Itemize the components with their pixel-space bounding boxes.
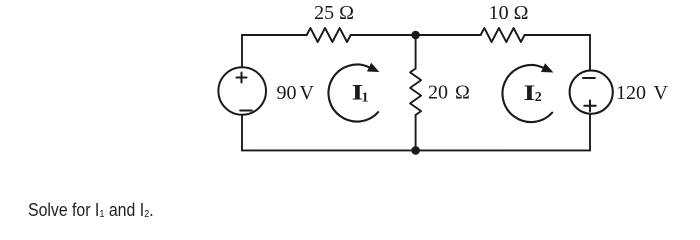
voltage source V2 plus sign xyxy=(584,100,595,111)
node B bottom junction dot xyxy=(411,146,420,155)
svg-text:V: V xyxy=(300,82,315,104)
label mesh current I2 xyxy=(524,80,542,105)
svg-text:V: V xyxy=(654,82,669,104)
voltage source V1 minus sign xyxy=(240,110,252,112)
voltage source V2 minus sign xyxy=(583,77,595,79)
node A top junction dot xyxy=(411,31,420,40)
svg-text:10 Ω: 10 Ω xyxy=(489,2,529,24)
label mesh current I1 xyxy=(352,79,369,105)
voltage source V1 90V circle xyxy=(218,67,266,115)
label R2 value 10 ohm xyxy=(489,2,529,24)
mesh current I1 loop arrow xyxy=(329,63,380,122)
wire right vertical lower xyxy=(589,114,591,151)
voltage source V1 plus sign xyxy=(237,73,247,83)
wire top middle xyxy=(351,34,481,36)
label V2 value 120 V xyxy=(616,82,669,104)
wire left vertical upper xyxy=(241,35,243,67)
wire left vertical lower xyxy=(241,115,243,150)
svg-text:20: 20 xyxy=(428,82,448,104)
svg-text:I: I xyxy=(524,80,536,105)
wire top-right horizontal xyxy=(525,34,590,36)
label V1 value 90 V xyxy=(277,82,315,104)
wire bottom xyxy=(242,149,590,151)
voltage source V2 120V circle xyxy=(570,71,613,114)
svg-text:120: 120 xyxy=(616,82,646,104)
caption: Solve for I1 and I2 xyxy=(28,200,154,221)
label R3 value 20 ohm xyxy=(428,82,470,104)
wire middle vertical upper xyxy=(415,35,417,69)
svg-text:90: 90 xyxy=(277,82,297,104)
svg-text:Ω: Ω xyxy=(455,82,470,104)
svg-text:1: 1 xyxy=(362,91,369,106)
label R1 value 25 ohm xyxy=(314,2,354,24)
resistor R3 20-ohm vertical zigzag xyxy=(410,69,421,116)
resistor R2 10-ohm zigzag xyxy=(481,28,525,42)
wire top-left horizontal xyxy=(242,34,307,36)
wire middle vertical lower xyxy=(415,115,417,150)
wire right vertical upper xyxy=(589,35,591,71)
resistor R1 25-ohm zigzag xyxy=(307,28,351,42)
svg-text:25 Ω: 25 Ω xyxy=(314,2,354,24)
mesh current I2 loop arrow xyxy=(503,63,554,122)
svg-text:2: 2 xyxy=(535,90,542,105)
